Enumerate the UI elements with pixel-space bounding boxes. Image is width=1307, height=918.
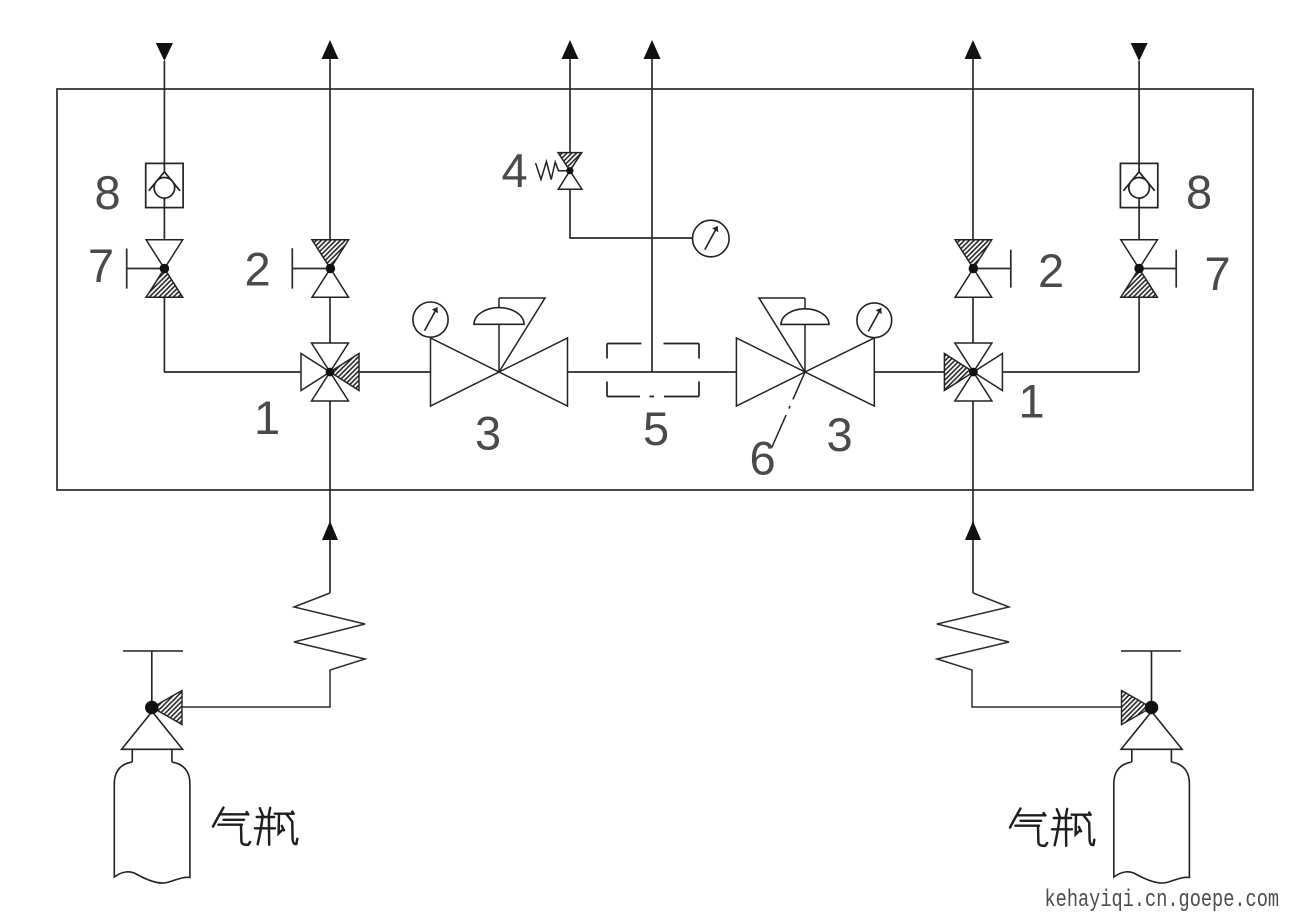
svg-text:7: 7	[1205, 247, 1231, 300]
wire: left pigtail coil to cylinder	[182, 593, 365, 707]
svg-text:1: 1	[1019, 375, 1045, 428]
valve 1 (left) four-way manifold valve	[301, 343, 359, 401]
arrow: top-left vent (down)	[156, 43, 173, 61]
regulator 3 (left) dome	[474, 308, 524, 325]
svg-text:8: 8	[95, 166, 121, 219]
left cylinder valve	[152, 691, 182, 725]
arrow: right cylinder feed (up)	[965, 521, 981, 540]
svg-text:kehayiqi.cn.goepe.com: kehayiqi.cn.goepe.com	[1045, 886, 1280, 914]
ARROWS	[156, 40, 1148, 540]
right cylinder valve node	[1145, 701, 1159, 715]
regulator 3 (left) set flag	[499, 298, 545, 372]
wire: relief riser upper	[569, 59, 571, 153]
wire: relief riser lower with elbow to gauge	[570, 189, 711, 238]
valve 2 (left) handle	[292, 248, 330, 288]
wire: left vent riser	[163, 61, 165, 372]
svg-text:2: 2	[1038, 244, 1064, 297]
right gas cylinder bottle	[1114, 712, 1190, 883]
check valve 8 (right)	[1120, 163, 1157, 207]
wire: right pigtail coil to cylinder	[937, 593, 1122, 707]
left cylinder valve handle	[123, 651, 183, 708]
label 气瓶 (left)	[213, 808, 297, 845]
regulator 3 (right) stem	[804, 298, 806, 372]
valve 7 (right) handle	[1139, 250, 1176, 288]
valve 1 (right) four-way manifold valve	[944, 343, 1002, 401]
left gas cylinder bottle	[114, 712, 190, 883]
check valve 8 (left)	[146, 163, 183, 207]
arrow: center outlet (up)	[644, 40, 661, 59]
wire: main manifold header	[164, 371, 1139, 373]
valve 7 (left) diaphragm valve	[146, 240, 183, 297]
wire: left service riser	[329, 59, 331, 593]
relief valve 4	[558, 153, 582, 190]
svg-text:2: 2	[245, 243, 271, 296]
svg-text:5: 5	[643, 402, 669, 455]
regulator 3 (right) set flag	[759, 298, 805, 372]
right cylinder valve	[1122, 691, 1152, 725]
svg-text:4: 4	[502, 144, 528, 197]
wire: right vent riser	[1138, 61, 1140, 372]
label 气瓶 (right)	[1010, 809, 1094, 846]
svg-text:7: 7	[88, 239, 114, 292]
gauge on regulator 3 (left)	[413, 302, 448, 337]
arrow: right service out (up)	[965, 40, 982, 59]
regulator 3 (right) dome	[781, 309, 829, 325]
regulator 3 (right) body	[736, 338, 874, 406]
wire: right service riser	[972, 59, 974, 593]
svg-text:1: 1	[254, 391, 280, 444]
left cylinder valve node	[145, 701, 159, 715]
arrow: left service out (up)	[322, 40, 339, 59]
arrow: top-right vent (down)	[1131, 43, 1148, 61]
valve 7 (right) diaphragm valve	[1121, 240, 1158, 297]
valve 7 (left) handle	[127, 249, 165, 289]
valve 2 (right) handle	[973, 250, 1010, 288]
panel enclosure box	[57, 89, 1253, 490]
outlet fitting 5 (dashed box)	[607, 344, 699, 397]
valve 2 (left) diaphragm valve	[312, 240, 349, 297]
svg-text:6: 6	[750, 432, 776, 485]
svg-text:3: 3	[475, 407, 501, 460]
arrow: left cylinder feed (up)	[322, 521, 338, 540]
relief valve 4 spring	[536, 162, 568, 180]
right cylinder valve handle	[1121, 651, 1181, 708]
arrow: relief out (up)	[562, 40, 579, 59]
gauge on relief header	[693, 220, 730, 257]
leader line 6 (dash-dot)	[772, 372, 805, 447]
gauge on regulator 3 (right)	[857, 303, 892, 338]
regulator 3 (left) body	[431, 338, 568, 406]
valve 2 (right) diaphragm valve	[955, 240, 992, 297]
svg-text:8: 8	[1186, 166, 1212, 219]
svg-text:3: 3	[827, 408, 853, 461]
regulator 3 (left) stem	[498, 298, 500, 372]
wire: center outlet riser	[651, 59, 653, 372]
